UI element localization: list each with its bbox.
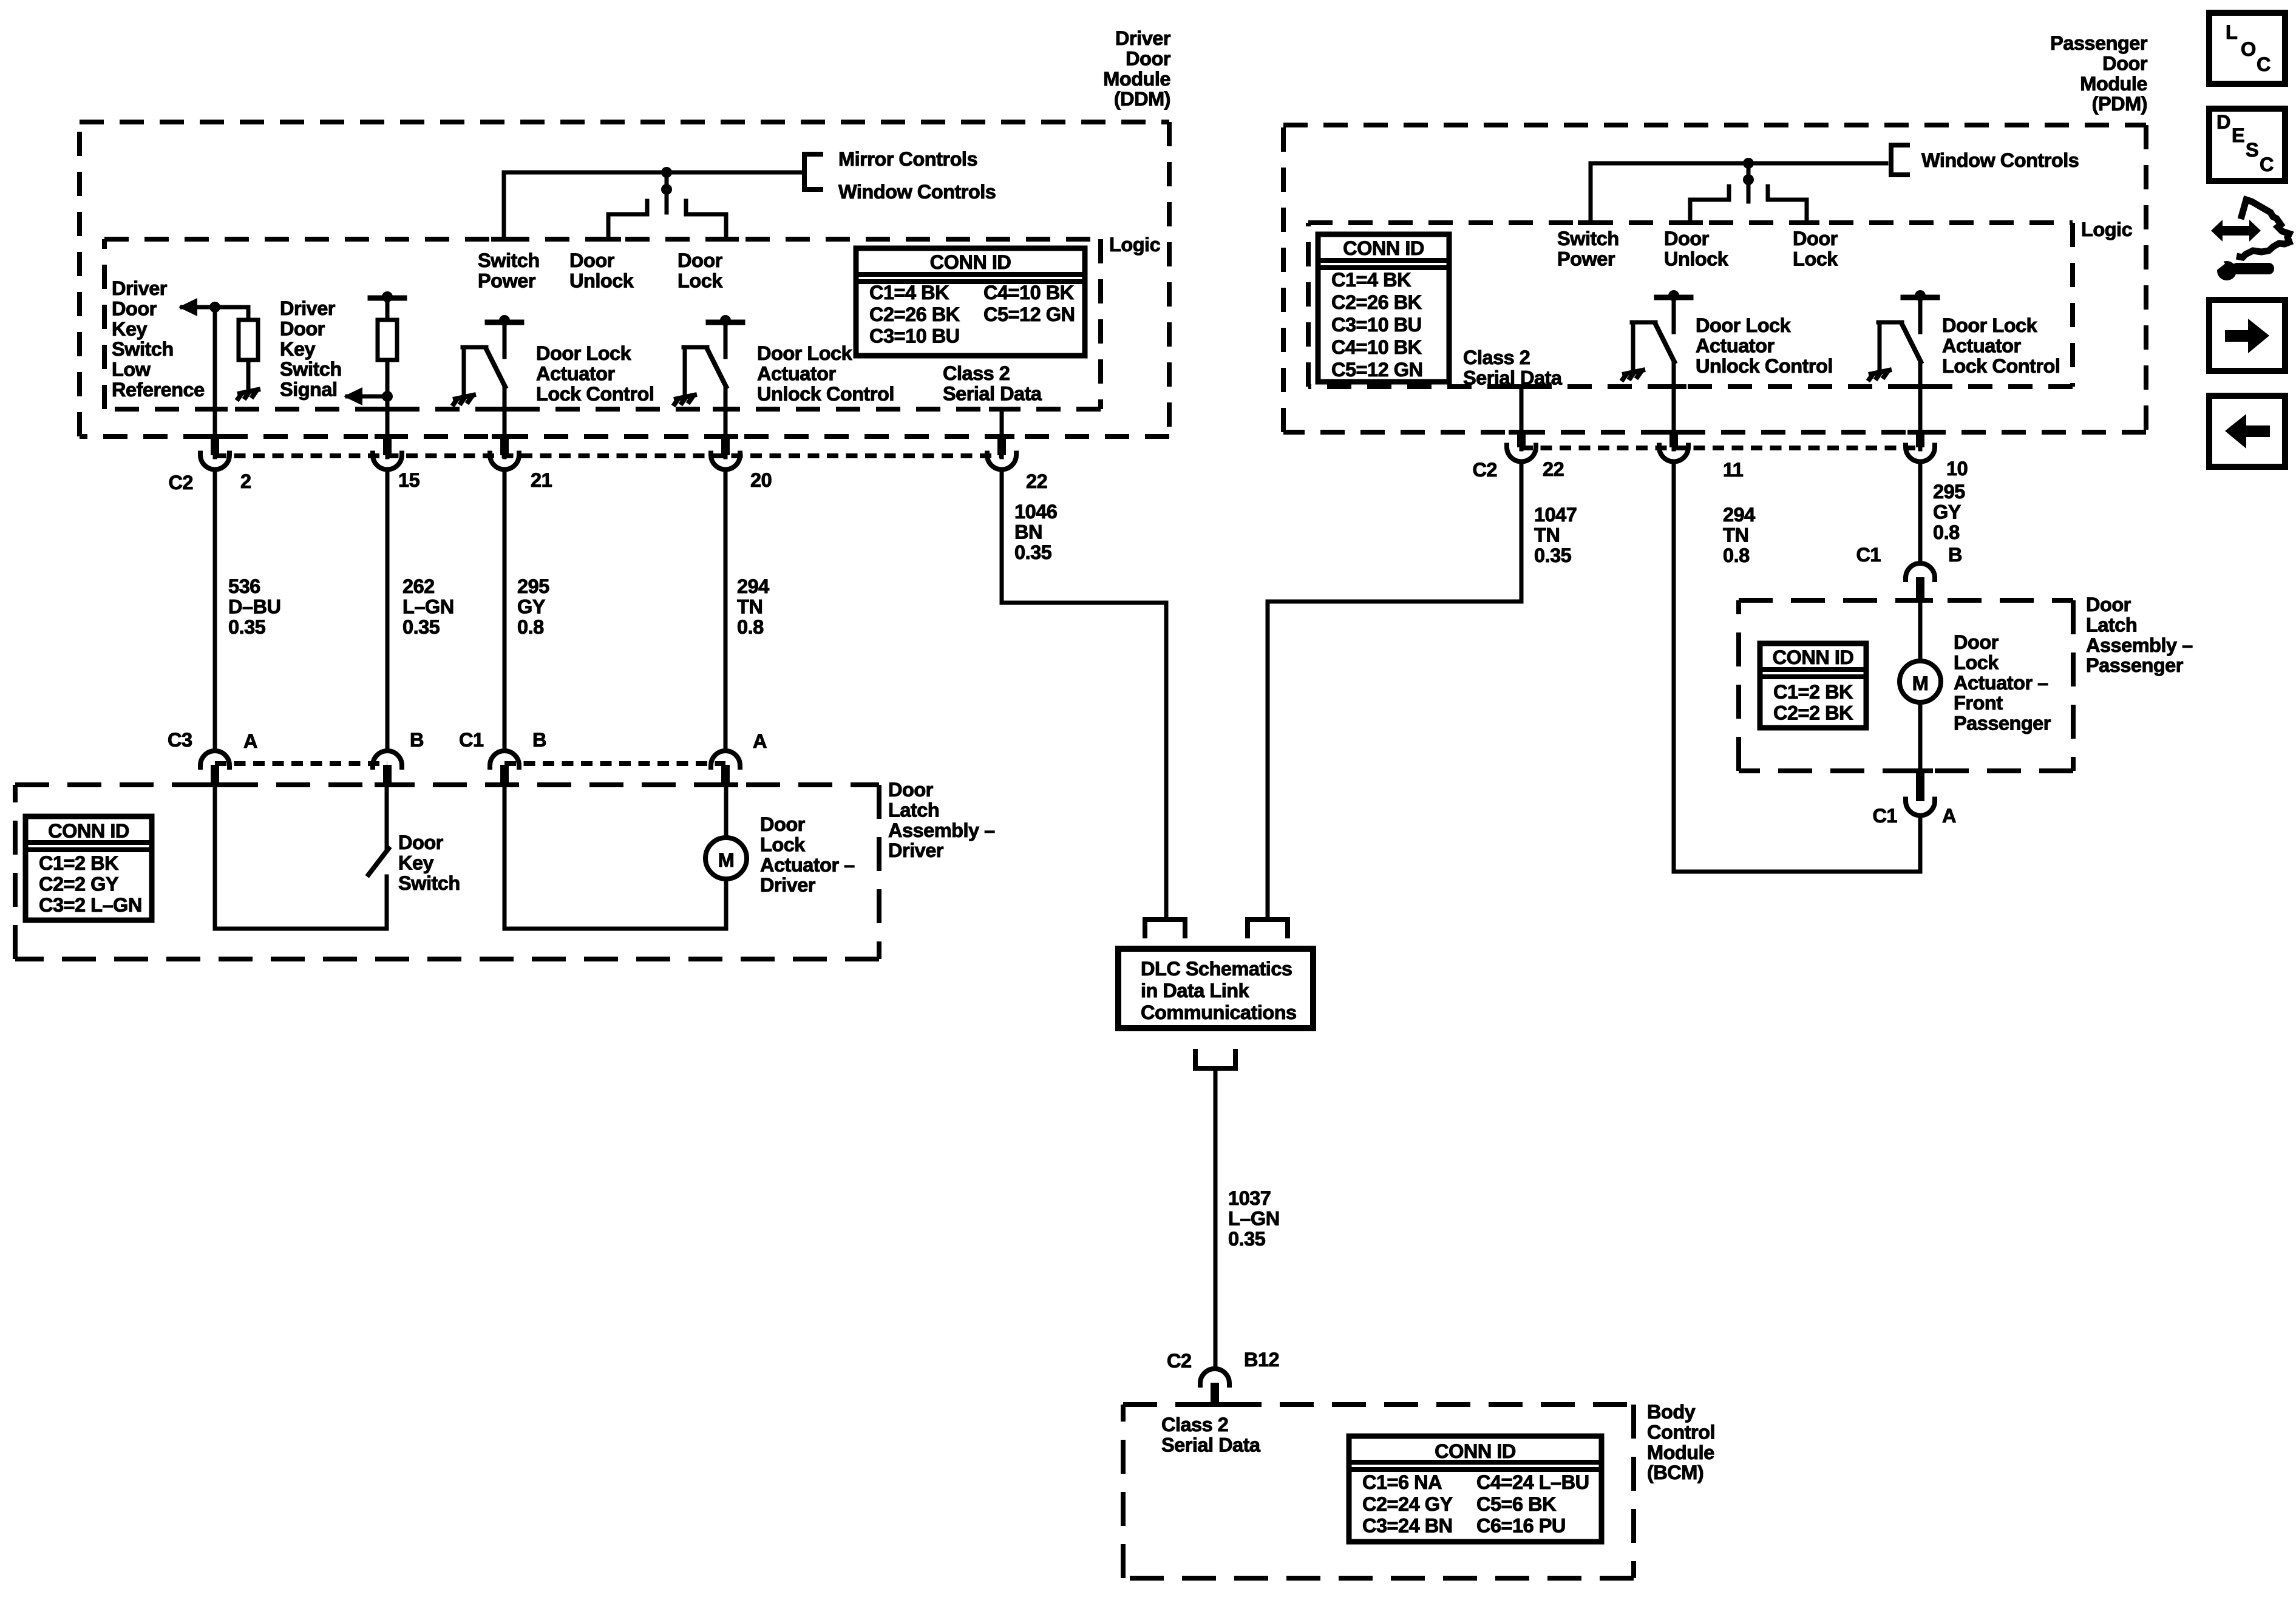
wire link up to latch A xyxy=(1918,815,1923,872)
wire key switch right leg xyxy=(385,876,389,929)
svg-text:Lock Control: Lock Control xyxy=(536,383,654,405)
wire 536 D-BU 0.35 xyxy=(213,469,217,750)
rocker right contact arm (PDM) xyxy=(1768,198,1807,202)
icon arrow-right xyxy=(2225,330,2249,342)
icon wrench xyxy=(2217,261,2237,280)
svg-text:Key: Key xyxy=(280,338,316,360)
svg-text:B: B xyxy=(532,729,546,751)
bracket to window controls (PDM) xyxy=(1891,145,1910,175)
wire switch to pin 10 xyxy=(1918,362,1923,449)
svg-text:A: A xyxy=(1942,805,1956,827)
wire motor upper (passenger) xyxy=(1918,601,1923,661)
wire 295 GY 0.8 (PDM) xyxy=(1918,461,1923,561)
svg-text:10: 10 xyxy=(1946,458,1968,480)
svg-text:Communications: Communications xyxy=(1141,1002,1297,1023)
svg-text:Passenger: Passenger xyxy=(2086,654,2184,676)
svg-text:Mirror Controls: Mirror Controls xyxy=(838,148,977,170)
junction dashes at DDM logic box bottom xyxy=(202,407,228,412)
junction dashes at PDM logic box bottom xyxy=(1509,384,1534,389)
svg-text:Module: Module xyxy=(1647,1442,1714,1463)
svg-text:C2=24 GY: C2=24 GY xyxy=(1362,1493,1453,1515)
svg-text:Actuator –: Actuator – xyxy=(1954,672,2048,694)
svg-text:0.35: 0.35 xyxy=(1534,544,1572,566)
wire 294 TN 0.8 (PDM) xyxy=(1672,461,1676,872)
conn-id table passenger latch xyxy=(1760,643,1866,728)
svg-text:Module: Module xyxy=(1103,68,1170,90)
connector pin 21 (DDM C2) xyxy=(492,434,517,439)
svg-text:22: 22 xyxy=(1543,458,1564,480)
wire switch to pin 21 xyxy=(503,387,507,457)
svg-text:Door: Door xyxy=(1793,228,1838,249)
svg-text:Actuator: Actuator xyxy=(1942,334,2021,356)
svg-text:Low: Low xyxy=(112,359,151,381)
arrow driver door key switch signal xyxy=(344,387,362,405)
connector line DDM C2 xyxy=(215,453,1002,458)
wire class 2 serial data (DDM pin 22) xyxy=(1000,409,1004,457)
svg-text:Lock: Lock xyxy=(1954,651,1999,673)
svg-text:GY: GY xyxy=(1933,501,1961,523)
svg-text:Door: Door xyxy=(2086,594,2131,615)
switch T-bar contact xyxy=(487,320,521,325)
svg-text:BN: BN xyxy=(1014,521,1042,543)
svg-text:D–BU: D–BU xyxy=(228,595,281,617)
svg-text:294: 294 xyxy=(737,575,769,597)
svg-text:L–GN: L–GN xyxy=(1228,1207,1280,1229)
terminal T-bar resistor R2 xyxy=(370,296,404,301)
icon harness double arrow xyxy=(2211,220,2261,242)
svg-text:Lock: Lock xyxy=(678,269,723,291)
wire 1037 L-GN 0.35 xyxy=(1214,1068,1218,1367)
wire to resistor R1 xyxy=(246,307,251,320)
switch pivot tick xyxy=(1632,320,1656,325)
svg-text:B: B xyxy=(1948,544,1962,566)
box DLC schematics xyxy=(1118,949,1313,1028)
connector pin (PDM C2 row) xyxy=(1907,430,1933,435)
svg-text:Driver: Driver xyxy=(280,297,336,319)
svg-text:Actuator: Actuator xyxy=(1696,334,1775,356)
svg-text:C1=2 BK: C1=2 BK xyxy=(39,852,119,874)
svg-text:Door: Door xyxy=(569,249,615,271)
svg-text:295: 295 xyxy=(517,575,549,597)
svg-text:Key: Key xyxy=(398,852,434,873)
svg-text:Latch: Latch xyxy=(2086,614,2137,636)
wire class 2 serial data (PDM pin 22) xyxy=(1520,387,1524,449)
svg-text:M: M xyxy=(718,849,735,871)
connector pin (PDM C2 row) xyxy=(1661,430,1686,435)
module PDM outer dashed box xyxy=(1283,125,2146,432)
svg-text:Switch: Switch xyxy=(280,358,342,380)
svg-text:(PDM): (PDM) xyxy=(2092,93,2147,115)
svg-text:C4=10 BK: C4=10 BK xyxy=(983,282,1075,303)
ground xyxy=(452,395,476,406)
svg-text:C1=4 BK: C1=4 BK xyxy=(869,282,949,303)
svg-text:Door: Door xyxy=(1664,228,1710,249)
switch T-bar contact xyxy=(1903,295,1937,300)
switch pivot wire xyxy=(683,347,687,395)
motor M door lock actuator driver xyxy=(705,838,747,879)
junction node R2 top xyxy=(382,291,393,302)
wire signal arrow link xyxy=(347,395,387,399)
svg-text:21: 21 xyxy=(531,469,552,491)
connector line C1 (driver latch) xyxy=(504,761,725,766)
svg-text:Reference: Reference xyxy=(112,379,205,401)
switch pivot tick xyxy=(463,345,486,350)
svg-text:Power: Power xyxy=(1557,248,1615,269)
rocker right contact tick (DDM door lock) xyxy=(684,201,688,214)
svg-text:Driver: Driver xyxy=(888,839,944,861)
svg-text:CONN ID: CONN ID xyxy=(48,820,129,842)
wire motor bottom xyxy=(504,927,726,931)
svg-text:Door: Door xyxy=(1954,631,1999,653)
svg-text:Front: Front xyxy=(1954,692,2003,714)
svg-text:Class 2: Class 2 xyxy=(1463,347,1530,368)
ground xyxy=(1622,370,1645,381)
connector C1 B (passenger latch) xyxy=(1906,563,1935,582)
svg-text:1046: 1046 xyxy=(1014,501,1057,523)
svg-text:C5=12 GN: C5=12 GN xyxy=(1331,359,1422,381)
wire switch-power horizontal bus (PDM) xyxy=(1591,161,1886,166)
switch door key blade xyxy=(369,849,389,875)
svg-text:Door: Door xyxy=(1126,47,1171,69)
svg-text:Actuator: Actuator xyxy=(536,362,615,384)
svg-text:0.35: 0.35 xyxy=(1228,1228,1266,1250)
svg-text:Lock Control: Lock Control xyxy=(1942,355,2060,377)
svg-text:Power: Power xyxy=(478,269,536,291)
svg-text:M: M xyxy=(1912,673,1929,694)
resistor R2 xyxy=(378,320,397,360)
connector pin 22 (DDM C2) xyxy=(989,434,1014,439)
arrow driver door key switch low reference xyxy=(178,298,197,316)
svg-text:E: E xyxy=(2232,124,2244,146)
ground xyxy=(237,389,260,401)
wire switch to pin 20 xyxy=(724,387,728,457)
svg-text:C2=2 GY: C2=2 GY xyxy=(39,873,119,895)
wire 294 bottom link xyxy=(1674,870,1920,874)
svg-text:0.8: 0.8 xyxy=(517,616,544,638)
svg-text:C5=12 GN: C5=12 GN xyxy=(983,303,1075,325)
switch pivot wire xyxy=(462,347,466,395)
wire switch-power horizontal bus (DDM) xyxy=(504,171,802,175)
svg-text:536: 536 xyxy=(228,575,260,597)
svg-text:B: B xyxy=(410,729,424,751)
svg-text:Switch: Switch xyxy=(112,338,174,360)
ground xyxy=(673,395,697,406)
svg-text:1047: 1047 xyxy=(1534,504,1577,526)
wire 1047 drop to DLC xyxy=(1266,602,1270,920)
wire 262 L-GN 0.35 xyxy=(385,469,390,750)
svg-text:Module: Module xyxy=(2080,73,2147,95)
wire key switch top leg xyxy=(385,785,389,848)
svg-text:C3=10 BU: C3=10 BU xyxy=(1331,314,1422,336)
resistor R1 xyxy=(239,320,258,360)
svg-text:Door: Door xyxy=(888,779,934,801)
svg-text:Assembly –: Assembly – xyxy=(888,819,995,841)
svg-text:Serial Data: Serial Data xyxy=(1161,1434,1261,1456)
rocker right contact arm (DDM) xyxy=(686,212,726,217)
icon harness outline xyxy=(2237,200,2289,257)
svg-text:Signal: Signal xyxy=(280,379,338,401)
svg-text:S: S xyxy=(2246,139,2258,161)
wire motor upper leg xyxy=(724,785,729,838)
svg-text:Serial Data: Serial Data xyxy=(943,382,1042,404)
wire 1047 TN 0.35 vertical xyxy=(1520,461,1524,602)
svg-text:Key: Key xyxy=(112,318,148,340)
junction dashes at DDM logic box top xyxy=(491,237,517,242)
svg-text:Actuator: Actuator xyxy=(757,362,836,384)
conn-id table DDM xyxy=(856,248,1085,356)
svg-text:15: 15 xyxy=(398,469,420,491)
svg-text:Logic: Logic xyxy=(2081,219,2133,240)
svg-text:CONN ID: CONN ID xyxy=(1435,1440,1516,1462)
svg-text:Window Controls: Window Controls xyxy=(1921,149,2079,171)
connector half (driver latch entry) xyxy=(490,751,519,770)
svg-text:20: 20 xyxy=(750,469,772,491)
switch pivot wire xyxy=(1631,322,1635,370)
svg-text:0.35: 0.35 xyxy=(228,616,266,638)
svg-text:(BCM): (BCM) xyxy=(1647,1462,1703,1483)
wire switch power drop (PDM) xyxy=(1589,163,1593,223)
connector bracket DLC input left xyxy=(1145,920,1185,938)
svg-text:C2=2 BK: C2=2 BK xyxy=(1773,702,1853,724)
motor M door lock actuator front passenger xyxy=(1900,661,1941,702)
svg-text:Driver: Driver xyxy=(760,874,816,896)
svg-text:L: L xyxy=(2226,21,2237,43)
svg-text:Unlock Control: Unlock Control xyxy=(757,383,894,405)
wire door unlock drop (PDM) xyxy=(1688,200,1693,223)
conn-id table PDM xyxy=(1318,234,1449,382)
svg-text:Unlock Control: Unlock Control xyxy=(1696,355,1833,377)
wire switch power drop (DDM) xyxy=(502,172,506,239)
wire 1046 BN 0.35 vertical xyxy=(1000,469,1004,603)
svg-text:C1: C1 xyxy=(1872,805,1897,827)
svg-text:Door: Door xyxy=(280,317,325,339)
svg-text:C6=16 PU: C6=16 PU xyxy=(1476,1515,1566,1537)
svg-text:TN: TN xyxy=(1534,524,1560,546)
junction node key switch signal xyxy=(382,391,393,402)
svg-text:Switch: Switch xyxy=(1557,228,1619,249)
rocker left contact arm (PDM) xyxy=(1690,198,1729,202)
svg-text:Body: Body xyxy=(1647,1401,1696,1423)
svg-text:0.35: 0.35 xyxy=(402,616,440,638)
svg-text:Actuator –: Actuator – xyxy=(760,854,855,876)
svg-text:Class 2: Class 2 xyxy=(943,362,1010,384)
icon arrow-left xyxy=(2225,414,2246,449)
icon arrow-right box xyxy=(2209,300,2285,371)
svg-text:C3=2 L–GN: C3=2 L–GN xyxy=(39,894,142,916)
svg-text:Class 2: Class 2 xyxy=(1161,1414,1228,1436)
wire door lock drop (PDM) xyxy=(1805,200,1809,223)
icon arrow-left box xyxy=(2209,396,2285,467)
connector line PDM C2 xyxy=(1521,446,1920,450)
wire motor lower (passenger) xyxy=(1918,702,1923,771)
svg-text:Driver: Driver xyxy=(1115,27,1171,49)
connector half (driver latch entry) xyxy=(200,751,229,770)
svg-text:C2=26 BK: C2=26 BK xyxy=(1331,291,1422,313)
rocker left contact tick (DDM door unlock) xyxy=(645,201,650,214)
connector C1 A (passenger latch bottom) xyxy=(1907,768,1933,773)
svg-text:C1=2 BK: C1=2 BK xyxy=(1773,681,1853,703)
svg-text:1037: 1037 xyxy=(1228,1187,1271,1209)
svg-text:C1=4 BK: C1=4 BK xyxy=(1331,269,1411,291)
svg-text:C2: C2 xyxy=(1472,459,1497,481)
wire R1 to ground xyxy=(246,360,251,388)
svg-text:C2: C2 xyxy=(1167,1350,1192,1372)
svg-text:Control: Control xyxy=(1647,1421,1715,1443)
svg-text:C1: C1 xyxy=(1856,544,1881,566)
svg-text:295: 295 xyxy=(1933,481,1965,503)
switch blade xyxy=(486,349,505,387)
module door latch assembly passenger dashed box xyxy=(1739,600,2073,771)
wire rocker feed (DDM) xyxy=(665,172,669,212)
connector line C3 (driver latch) xyxy=(215,761,387,766)
connector half (driver latch entry) xyxy=(373,751,402,770)
svg-text:CONN ID: CONN ID xyxy=(930,251,1011,273)
rocker right contact tick (PDM) xyxy=(1766,186,1770,200)
module PDM logic inner dashed box xyxy=(1308,223,2073,387)
module DDM outer dashed box xyxy=(80,122,1169,436)
switch T-bar contact xyxy=(708,320,742,325)
svg-text:GY: GY xyxy=(517,595,546,617)
svg-text:0.8: 0.8 xyxy=(1933,521,1960,543)
svg-text:Lock: Lock xyxy=(1793,248,1838,269)
svg-text:CONN ID: CONN ID xyxy=(1773,646,1854,668)
svg-text:2: 2 xyxy=(240,470,251,492)
connector half (driver latch entry) xyxy=(711,751,740,770)
junction dashes at PDM logic box top xyxy=(1578,220,1603,225)
svg-text:Unlock: Unlock xyxy=(569,269,634,291)
svg-text:C: C xyxy=(2260,154,2274,175)
wire motor lower leg xyxy=(724,879,729,929)
wire switch to pin 11 xyxy=(1672,362,1676,449)
svg-text:(DDM): (DDM) xyxy=(1114,88,1170,110)
wire 294 TN 0.8 xyxy=(724,469,728,750)
module BCM dashed box xyxy=(1123,1405,1634,1578)
wire door lock drop (DDM) xyxy=(724,214,729,239)
svg-text:C1=6 NA: C1=6 NA xyxy=(1362,1471,1442,1493)
connector pin 15 (DDM C2) xyxy=(375,434,400,439)
wire 1046 drop to DLC xyxy=(1164,603,1169,920)
wire door unlock drop (DDM) xyxy=(606,214,611,239)
svg-text:0.8: 0.8 xyxy=(737,616,764,638)
svg-text:Door: Door xyxy=(112,297,157,319)
svg-text:C3=24 BN: C3=24 BN xyxy=(1362,1515,1453,1537)
junction node wire 536 xyxy=(209,302,220,313)
connector bracket DLC output xyxy=(1195,1049,1235,1068)
connector pin (PDM C2 row) xyxy=(1509,430,1534,435)
svg-text:Unlock: Unlock xyxy=(1664,248,1729,269)
svg-text:C1: C1 xyxy=(459,729,484,751)
svg-text:Logic: Logic xyxy=(1109,234,1161,256)
svg-text:TN: TN xyxy=(1723,524,1748,546)
connector pin 2 (DDM C2) xyxy=(202,434,228,439)
wire T-bar to resistor R2 xyxy=(385,298,390,320)
switch T-bar contact xyxy=(1657,295,1691,300)
junction node rocker (DDM) xyxy=(661,184,672,195)
ground xyxy=(1868,370,1892,381)
svg-text:C3=10 BU: C3=10 BU xyxy=(869,325,960,347)
module DDM logic inner dashed box xyxy=(104,239,1101,409)
wire rocker feed (PDM) xyxy=(1747,163,1751,202)
svg-text:A: A xyxy=(243,730,257,752)
svg-text:Passenger: Passenger xyxy=(2050,32,2148,54)
module door latch assembly driver dashed box xyxy=(15,785,879,959)
svg-text:Door: Door xyxy=(760,813,806,835)
icon DESC box xyxy=(2209,109,2285,181)
svg-text:Switch: Switch xyxy=(398,872,460,894)
wire R2 down to pin 15 xyxy=(385,360,390,457)
switch blade xyxy=(707,349,726,387)
junction node on bus (PDM) xyxy=(1743,158,1754,169)
switch blade xyxy=(1902,324,1921,362)
wire key switch bottom xyxy=(215,927,387,931)
connector C2 B12 (BCM) xyxy=(1200,1369,1229,1388)
svg-text:22: 22 xyxy=(1026,470,1047,492)
svg-text:O: O xyxy=(2241,38,2256,60)
svg-text:A: A xyxy=(753,730,767,752)
svg-text:Door Lock: Door Lock xyxy=(1696,314,1792,336)
svg-text:Door: Door xyxy=(398,832,444,853)
switch blade xyxy=(1656,324,1674,362)
rocker left contact tick (PDM) xyxy=(1727,186,1731,200)
svg-text:C3: C3 xyxy=(168,729,192,751)
svg-text:DLC Schematics: DLC Schematics xyxy=(1141,958,1292,980)
wire key switch left leg xyxy=(213,785,217,929)
wire motor left leg (295) xyxy=(503,785,507,929)
svg-text:294: 294 xyxy=(1723,504,1755,526)
icon LOC box xyxy=(2209,13,2285,84)
svg-text:C2=26 BK: C2=26 BK xyxy=(869,303,960,325)
svg-text:B12: B12 xyxy=(1244,1349,1279,1371)
svg-text:C5=6 BK: C5=6 BK xyxy=(1476,1493,1557,1515)
svg-text:Driver: Driver xyxy=(112,277,168,299)
switch pivot tick xyxy=(684,345,707,350)
svg-text:TN: TN xyxy=(737,595,763,617)
svg-text:11: 11 xyxy=(1723,459,1744,481)
junction node rocker (PDM) xyxy=(1743,174,1754,185)
svg-text:C: C xyxy=(2257,53,2271,75)
wire low reference horizontal xyxy=(182,305,248,310)
svg-text:Door: Door xyxy=(678,249,723,271)
svg-text:Window Controls: Window Controls xyxy=(838,181,996,203)
bracket to mirror/window controls (DDM) xyxy=(804,154,823,189)
wire 295 GY 0.8 xyxy=(503,469,507,750)
conn-id table driver latch xyxy=(25,816,152,920)
svg-text:Lock: Lock xyxy=(760,833,806,855)
connector pin 20 (DDM C2) xyxy=(713,434,738,439)
wire 1047 horizontal jog xyxy=(1268,600,1521,604)
svg-text:Switch: Switch xyxy=(478,249,540,271)
switch pivot tick xyxy=(1878,320,1902,325)
wire 1046 horizontal jog xyxy=(1002,601,1166,605)
svg-text:C2: C2 xyxy=(168,472,193,493)
connector bracket DLC input right xyxy=(1248,920,1288,938)
svg-text:Door Lock: Door Lock xyxy=(536,342,632,364)
svg-text:0.35: 0.35 xyxy=(1014,541,1052,563)
svg-text:Door Lock: Door Lock xyxy=(757,342,853,364)
conn-id table BCM xyxy=(1349,1436,1601,1542)
svg-text:Door Lock: Door Lock xyxy=(1942,314,2038,336)
svg-text:0.8: 0.8 xyxy=(1723,544,1750,566)
svg-text:C4=10 BK: C4=10 BK xyxy=(1331,336,1422,358)
svg-text:CONN ID: CONN ID xyxy=(1343,237,1424,259)
svg-text:C4=24 L–BU: C4=24 L–BU xyxy=(1476,1471,1589,1493)
junction node on bus (DDM) xyxy=(661,167,672,178)
svg-text:D: D xyxy=(2216,111,2230,133)
svg-text:in Data Link: in Data Link xyxy=(1141,980,1250,1002)
svg-text:Door: Door xyxy=(2102,52,2148,74)
svg-text:Assembly –: Assembly – xyxy=(2086,634,2193,656)
svg-text:Latch: Latch xyxy=(888,799,939,821)
